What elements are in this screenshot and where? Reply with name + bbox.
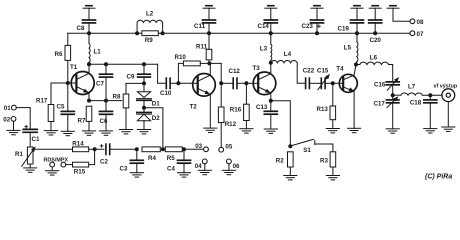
inductor L3 coil: [271, 44, 272, 60]
node T4 collector/L5/L6: [354, 63, 358, 67]
ground under RDS/MPX terminal: [46, 171, 59, 175]
wire: [89, 148, 104, 150]
svg-text:C8: C8: [77, 25, 85, 32]
node L2/R9 left: [135, 31, 139, 35]
wire T3 emitter: [270, 93, 272, 101]
svg-text:C13: C13: [256, 104, 268, 111]
trimmer arrow C15: [318, 75, 329, 90]
node C7/C6 junction: [104, 99, 108, 103]
ground above C11: [203, 6, 215, 9]
svg-text:L6: L6: [370, 54, 378, 61]
wire to C18: [429, 95, 431, 100]
wire: [289, 167, 291, 176]
wire L6 to C16: [389, 65, 393, 82]
arrowhead C17: [393, 95, 400, 102]
capacitor C18: [424, 100, 437, 103]
svg-text:01: 01: [4, 105, 11, 112]
svg-text:T4: T4: [336, 65, 344, 72]
svg-text:R15: R15: [74, 168, 86, 175]
ground above C20: [369, 6, 381, 9]
trimmer arrow C17: [387, 98, 397, 108]
svg-text:05: 05: [225, 144, 232, 151]
wire: [88, 121, 90, 130]
wire: [228, 164, 230, 171]
svg-text:L5: L5: [344, 44, 352, 51]
wire: [143, 121, 145, 130]
wire: [270, 60, 272, 63]
terminal 07: [410, 31, 415, 36]
terminal RDS/MPX ground side: [50, 162, 55, 167]
wire to terminal 08: [393, 8, 410, 21]
transistor T4: [336, 65, 357, 92]
node C19/L5 junction: [355, 31, 359, 35]
capacitor C14: [264, 20, 277, 23]
ground under T2 emitter: [204, 128, 217, 132]
wire: [429, 103, 431, 129]
wire base node to C5: [67, 83, 69, 111]
capacitor C12: [233, 78, 237, 88]
svg-text:C15: C15: [317, 68, 329, 75]
wire: [316, 8, 318, 20]
svg-text:C5: C5: [57, 104, 65, 111]
svg-text:C20: C20: [370, 37, 382, 44]
wire: [374, 8, 376, 20]
svg-text:C3: C3: [120, 165, 128, 172]
ground above C14: [265, 6, 277, 9]
wire L7 to output: [422, 94, 442, 96]
svg-text:R2: R2: [276, 158, 284, 165]
resistor R11: [206, 49, 212, 60]
node T1 base junction: [66, 81, 70, 85]
arrowhead T2 emitter: [205, 90, 212, 96]
svg-text:06: 06: [233, 163, 240, 170]
wire: [270, 114, 272, 129]
svg-text:C19: C19: [338, 25, 350, 32]
wire R8 to varicap node: [126, 83, 144, 94]
wire L4 to C22: [297, 63, 305, 84]
node T1 emitter: [87, 99, 91, 103]
capacitor C20: [369, 20, 382, 23]
wire VCO tank line: [89, 63, 158, 65]
node varicap tuning junction: [142, 106, 146, 110]
ground under R17: [44, 131, 57, 135]
wire: [143, 83, 145, 91]
node S1/R2 junction: [288, 144, 292, 148]
resistor R10: [178, 63, 183, 83]
resistor R12: [218, 107, 224, 123]
node C7 top: [104, 62, 108, 66]
wire collector node down: [220, 63, 222, 107]
wire: [183, 163, 185, 172]
node T4 base junction: [331, 81, 335, 85]
RF output connector: [442, 89, 455, 102]
svg-text:R12: R12: [225, 121, 237, 128]
wire C12 to T3 base: [238, 82, 247, 84]
wire to terminal 03: [184, 148, 204, 150]
wire T4 collector: [354, 65, 356, 76]
wire: [50, 122, 52, 131]
resistor R16: [244, 104, 250, 120]
arrowhead C16: [394, 76, 401, 83]
ground under R2: [284, 176, 297, 180]
node C4 junction: [182, 147, 186, 151]
svg-text:L4: L4: [284, 51, 292, 58]
node T3 collector/L3/L4: [269, 61, 273, 65]
svg-text:C11: C11: [194, 23, 206, 30]
wire R15 to summing node: [89, 149, 95, 164]
svg-text:C4: C4: [167, 165, 175, 172]
arrowhead C15: [325, 73, 331, 80]
plus mark C1: [25, 125, 28, 128]
svg-text:04: 04: [195, 163, 202, 170]
wire: [332, 120, 334, 129]
resistor R13: [330, 106, 336, 120]
resistor R3: [330, 152, 336, 167]
ground under D2: [137, 130, 150, 134]
wire: [355, 62, 358, 65]
ground under 04: [198, 170, 211, 174]
svg-text:(C) PiRa: (C) PiRa: [425, 173, 452, 180]
node C20/rail junction: [373, 31, 377, 35]
wire: [316, 23, 318, 33]
node R10/R11/collector: [207, 61, 211, 65]
ground under 06: [222, 170, 235, 174]
node C9/D1/R8 junction: [142, 81, 146, 85]
wire: [270, 8, 272, 20]
trimmer capacitor C17: [387, 100, 399, 103]
svg-text:R1: R1: [15, 151, 23, 158]
svg-text:R5: R5: [167, 155, 175, 162]
ground under connector: [442, 127, 455, 131]
svg-text:C1: C1: [32, 136, 40, 143]
wire T1 collector: [88, 64, 90, 73]
wire rail to R11: [208, 33, 210, 49]
svg-text:R4: R4: [148, 155, 156, 162]
capacitor C7: [100, 74, 113, 77]
wire T2 collector: [209, 63, 211, 75]
ground under R7: [82, 131, 95, 135]
wire: [143, 101, 145, 108]
wire tank to C7: [105, 64, 107, 74]
capacitor C1: [23, 129, 37, 132]
svg-text:R8: R8: [113, 94, 121, 101]
ground under C5: [61, 131, 74, 135]
wire: [356, 23, 358, 33]
trimmer capacitor C15: [321, 78, 325, 88]
svg-text:C16: C16: [374, 81, 386, 88]
capacitor C19: [351, 20, 364, 23]
trimmer arrow C16: [387, 78, 398, 90]
terminal 02: [11, 117, 16, 122]
svg-text:C12: C12: [229, 68, 241, 75]
ground under C13: [264, 129, 277, 133]
inductor L6: [360, 62, 389, 64]
inductor L1 coil: [89, 43, 90, 62]
resistor R4: [142, 147, 160, 152]
ground under C17: [386, 129, 399, 133]
svg-text:vf výstup: vf výstup: [434, 84, 458, 90]
arrowhead T4 emitter: [349, 87, 356, 93]
wire: [29, 164, 31, 168]
svg-text:C9: C9: [127, 73, 135, 80]
resistor R17: [48, 105, 54, 122]
inductor L1: [88, 33, 90, 43]
wire to C17: [392, 95, 394, 100]
ground above C19: [351, 6, 363, 9]
plus mark C2: [100, 145, 103, 148]
svg-text:R6: R6: [55, 51, 63, 58]
wire T3 collector: [270, 63, 272, 74]
wire: [204, 164, 206, 171]
ground under R1: [24, 168, 37, 172]
wire tank to C9: [143, 64, 145, 74]
node T3 emitter: [269, 99, 273, 103]
capacitor C2: [106, 144, 110, 154]
ground under R13: [326, 129, 339, 133]
ground under C3: [130, 173, 143, 177]
trimmer capacitor C16: [386, 82, 399, 85]
capacitor C22: [306, 78, 310, 88]
resistor R9: [142, 31, 158, 36]
resistor R14: [73, 147, 89, 152]
ground under R8: [119, 130, 132, 134]
resistor R2: [288, 152, 294, 167]
transistor T2: [190, 74, 216, 111]
svg-text:08: 08: [417, 19, 424, 26]
wire C2 to C3 node: [110, 148, 136, 150]
svg-text:C14: C14: [258, 23, 270, 30]
ground at terminal 08: [387, 6, 399, 9]
svg-text:R7: R7: [78, 118, 86, 125]
wire tank to C10: [158, 64, 166, 83]
svg-text:C23: C23: [302, 23, 314, 30]
wire T2 collector node: [200, 62, 221, 64]
inductor L5: [356, 33, 358, 42]
capacitor C11: [203, 20, 216, 23]
wire R12 to terminal 05: [220, 123, 222, 148]
node L2/R9 right: [161, 31, 165, 35]
varicap diode D1: [137, 92, 152, 101]
wire: [88, 62, 90, 64]
wire: [208, 23, 210, 33]
arrowhead T3 emitter: [265, 89, 272, 95]
svg-text:D1: D1: [152, 101, 160, 108]
svg-text:03: 03: [195, 143, 202, 150]
wire: [143, 77, 145, 83]
capacitor C6: [100, 111, 113, 114]
svg-text:L3: L3: [260, 46, 268, 53]
ground under C6: [99, 131, 112, 135]
capacitor C4: [178, 160, 191, 163]
svg-text:R11: R11: [196, 43, 208, 50]
terminal 05: [219, 147, 224, 152]
node T2 base junction: [176, 81, 180, 85]
svg-text:R3: R3: [320, 158, 328, 165]
wire 01 to C1: [16, 108, 30, 129]
wire: [245, 121, 247, 129]
capacitor C13: [264, 111, 277, 114]
wire C10 to T2 base: [170, 82, 197, 84]
transistor T3: [253, 65, 276, 94]
svg-text:L7: L7: [408, 83, 416, 90]
resistor R7: [86, 106, 92, 121]
wire: [136, 163, 138, 172]
wire T1 emitter: [88, 93, 90, 101]
wire T2 emitter: [209, 94, 211, 128]
wire to C3: [136, 149, 138, 160]
wire base to R16: [245, 83, 247, 104]
svg-text:D2: D2: [152, 115, 160, 122]
switch S1: [291, 139, 315, 145]
wire to C13: [270, 101, 272, 111]
wire to R17: [50, 83, 52, 105]
wire +supply rail: [68, 32, 410, 34]
wire: [374, 23, 376, 33]
wire T4 base: [333, 82, 343, 84]
wire: [392, 85, 394, 95]
wire: [208, 60, 210, 64]
wire: [392, 103, 394, 129]
svg-text:C17: C17: [374, 100, 386, 107]
svg-text:C22: C22: [303, 68, 315, 75]
node C23/rail junction: [315, 31, 319, 35]
ground above C23: [311, 6, 323, 9]
terminal 06: [227, 159, 232, 164]
wire S1 to R3: [315, 144, 333, 152]
wire: [393, 94, 401, 96]
svg-text:R13: R13: [317, 106, 329, 113]
resistor R8: [123, 94, 129, 108]
svg-text:07: 07: [417, 31, 424, 38]
svg-text:S1: S1: [303, 147, 311, 154]
node C3 junction: [135, 147, 139, 151]
ground under R3: [326, 176, 339, 180]
potentiometer R1: [27, 147, 33, 164]
wire T3 emitter to R2: [271, 101, 291, 147]
svg-text:R17: R17: [36, 98, 48, 105]
capacitor C23: [311, 20, 324, 23]
svg-text:C6: C6: [100, 118, 108, 125]
wire: [67, 114, 69, 131]
wire T4 emitter: [353, 92, 355, 129]
node C12 tee: [219, 81, 223, 85]
transistor T1: [70, 64, 94, 94]
svg-text:T2: T2: [190, 104, 198, 111]
node C14/L3 junction: [269, 31, 273, 35]
node T3 base junction: [244, 81, 248, 85]
node C9 top: [142, 62, 146, 66]
wire R1 wiper to R14: [35, 148, 72, 150]
node R14/R15 junction: [93, 147, 97, 151]
svg-text:R16: R16: [230, 106, 242, 113]
ground under R16: [240, 129, 253, 133]
terminal RDS/MPX input: [61, 162, 66, 167]
resistor R10 body: [183, 61, 200, 66]
svg-text:C18: C18: [410, 100, 422, 107]
wire emitter node: [89, 100, 122, 102]
wire C1 to R1: [29, 132, 31, 147]
svg-text:R9: R9: [145, 37, 153, 44]
wire: [88, 8, 90, 20]
wire: [105, 114, 107, 130]
wire 02 to ground: [13, 121, 15, 130]
capacitor C5: [61, 111, 74, 114]
terminal 08: [410, 19, 415, 24]
arrowhead R1 wiper: [31, 145, 37, 152]
ground under C4: [177, 173, 190, 177]
arrowhead T1 emitter: [83, 89, 90, 95]
wire: [51, 167, 53, 171]
wire: [125, 108, 127, 130]
wire: [88, 23, 90, 33]
inductor L5 coil: [357, 42, 358, 62]
wire: [208, 8, 210, 20]
svg-text:R14: R14: [72, 140, 84, 147]
wire: [356, 8, 358, 20]
svg-text:C2: C2: [100, 158, 108, 165]
svg-text:T1: T1: [70, 64, 78, 71]
terminal 01: [12, 105, 17, 110]
wire to C12: [221, 82, 232, 84]
plus mark C23: [318, 25, 321, 28]
node C11/R11 junction: [207, 31, 211, 35]
svg-text:L2: L2: [146, 11, 154, 18]
inductor L2: [137, 20, 163, 33]
wire C15 to T4 base: [326, 82, 333, 84]
ground above C8: [83, 6, 95, 9]
svg-text:C7: C7: [96, 80, 104, 87]
wire C7 to C6: [105, 77, 107, 111]
potentiometer R1 wiper arrow: [22, 148, 35, 167]
wire to C4: [183, 149, 185, 160]
capacitor C3: [130, 160, 143, 163]
wire C22 to C15: [310, 82, 321, 84]
wire: [332, 167, 334, 176]
capacitor C10: [166, 78, 170, 88]
wire: [270, 23, 272, 33]
wire R6 to base node: [67, 60, 69, 83]
ground under 02: [7, 130, 20, 134]
wire: [356, 64, 360, 66]
terminal 03: [204, 147, 209, 152]
resistor R6: [65, 45, 71, 60]
inductor L4: [271, 60, 297, 62]
ground under T4 emitter: [348, 128, 361, 132]
capacitor C9: [138, 74, 151, 77]
svg-text:C10: C10: [160, 90, 172, 97]
wire T3 base: [246, 82, 258, 84]
wire tuning node to audio line: [144, 108, 163, 150]
node C18/output: [428, 93, 432, 97]
node C16/C17/L7: [391, 93, 395, 97]
resistor R5: [165, 147, 182, 152]
ground under C18: [424, 129, 437, 133]
inductor L7: [401, 93, 423, 95]
wire to R15: [66, 164, 73, 166]
node T1 collector/L1: [87, 62, 91, 66]
capacitor C8: [83, 20, 96, 23]
varicap diode D2: [137, 108, 152, 121]
wire base to R13: [332, 83, 334, 106]
node C8/rail junction: [87, 31, 91, 35]
svg-text:R10: R10: [175, 54, 187, 61]
node R4/R5/varicap junction: [161, 147, 165, 151]
wire connector to ground: [447, 102, 449, 127]
svg-text:T3: T3: [253, 65, 261, 72]
svg-text:L1: L1: [94, 49, 102, 56]
terminal 04: [202, 159, 207, 164]
resistor R15: [73, 162, 89, 167]
